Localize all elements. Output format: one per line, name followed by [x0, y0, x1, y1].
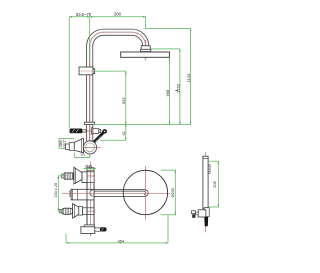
dimension 1263 [151, 49, 180, 125]
fitting: hose outlet (side view) [91, 128, 93, 134]
svg-text:1143: 1143 [186, 73, 191, 82]
valve centerline horizontal (upper) [69, 130, 104, 132]
valve body circle (side view) [83, 141, 96, 154]
dimension baseline at valve centerline [93, 124, 191, 126]
dimension Ø200 [161, 170, 177, 215]
dimension 300 [90, 17, 146, 29]
dimension 1143 [146, 29, 191, 125]
shower head plate (side view) [121, 52, 170, 57]
shower head connector [141, 46, 150, 50]
node: column red centerline [90, 162, 92, 237]
column redraw over cylinder [86, 183, 88, 225]
handle: left volume handle (side view) [82, 130, 86, 132]
dimension 205 [208, 161, 219, 207]
dimension 454 [66, 216, 168, 243]
svg-text:553: 553 [121, 97, 126, 104]
dimension 70 [75, 153, 90, 158]
arrowheads on dimension lines [58, 16, 220, 244]
svg-text:1263: 1263 [175, 83, 180, 93]
red crosshair of rain head [62, 192, 171, 194]
node: red centerline of riser [89, 44, 91, 157]
node: hand shower centerline [205, 152, 207, 233]
svg-text:968: 968 [165, 89, 170, 96]
column (front view) [87, 168, 94, 225]
svg-text:70: 70 [80, 152, 85, 157]
dimension Ø68 G1/2 bracket [59, 139, 74, 149]
svg-text:G1/2": G1/2" [62, 139, 66, 147]
svg-text:150 ± 25: 150 ± 25 [54, 183, 58, 198]
top wall mount (front view) [61, 175, 96, 177]
wand lower section [204, 208, 209, 217]
dimension 553 [95, 71, 126, 124]
black grip [204, 217, 208, 226]
bottom wall mount (front view) [60, 210, 96, 212]
slider bracket on riser [79, 67, 95, 75]
wall valve cone flange (side view) [74, 138, 83, 153]
holder box [198, 210, 206, 217]
holder knob with hatch [192, 211, 196, 214]
clip marks on wand [203, 157, 208, 159]
hand shower grip (front view) [95, 228, 101, 231]
arm to rain head (front view) [90, 190, 148, 197]
rain shower head circle (front view) [123, 170, 167, 214]
svg-text:205: 205 [212, 180, 217, 187]
handle: diagonal diverter handle [94, 133, 104, 143]
hand shower wand body [203, 156, 208, 209]
pipe joint nut on riser [85, 122, 95, 124]
dimension 53.5~70 [69, 17, 90, 129]
svg-text:53.5~70: 53.5~70 [76, 12, 92, 17]
knob: wall valve knob (side view) [65, 144, 69, 150]
bottom holder bracket (front view) [84, 225, 94, 227]
svg-text:300: 300 [114, 12, 122, 17]
node: red centerline of head drop [145, 40, 147, 61]
svg-text:Ø200: Ø200 [171, 188, 175, 197]
svg-text:454: 454 [118, 239, 124, 243]
node: valve crosshair [83, 146, 101, 148]
dimension 150 ± 25 [58, 176, 67, 211]
diverter cylinder (front view middle) [71, 189, 94, 200]
wire: riser pipe with top bend and arm (side view) [90, 32, 146, 141]
svg-text:62: 62 [122, 131, 126, 135]
dimension 968 [169, 57, 171, 124]
svg-text:Ø43: Ø43 [85, 164, 92, 168]
dimension 62 [100, 125, 126, 141]
